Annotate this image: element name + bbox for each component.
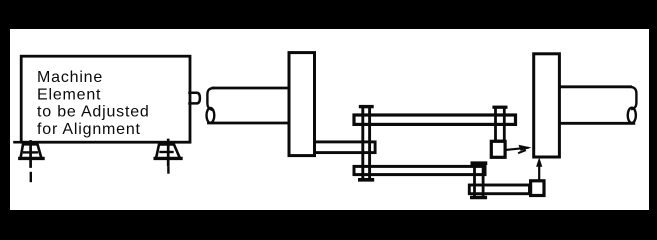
- svg-text:Element: Element: [37, 86, 101, 103]
- svg-text:Machine: Machine: [37, 69, 103, 86]
- svg-text:to be Adjusted: to be Adjusted: [37, 104, 150, 121]
- svg-text:for Alignment: for Alignment: [37, 121, 141, 138]
